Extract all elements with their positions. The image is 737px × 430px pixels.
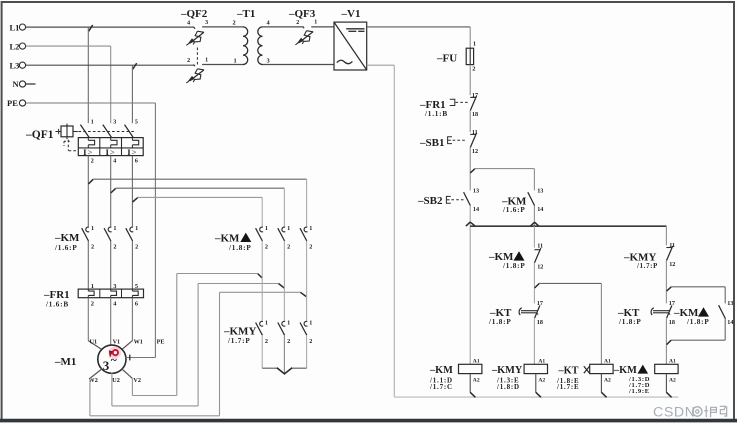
svg-text:–T1: –T1 bbox=[236, 8, 255, 20]
watermark char ma bbox=[720, 406, 727, 416]
wire column x306.6 bbox=[306, 241, 308, 321]
junction U2 to column2 bbox=[279, 284, 285, 289]
svg-text:–KT: –KT bbox=[558, 366, 579, 377]
svg-text:U2: U2 bbox=[112, 377, 120, 384]
junction KT coil branch bbox=[535, 283, 540, 288]
svg-text:2: 2 bbox=[309, 244, 312, 251]
wire T1-3 to V1 bbox=[263, 64, 335, 66]
svg-text:4: 4 bbox=[187, 20, 190, 26]
junction branch phase2 bbox=[111, 188, 116, 193]
svg-text:–KMY: –KMY bbox=[623, 252, 656, 264]
wire phase2 to KM-delta bbox=[116, 187, 285, 189]
svg-text:1: 1 bbox=[287, 225, 290, 232]
svg-text:2: 2 bbox=[265, 338, 268, 345]
svg-text:PE: PE bbox=[7, 98, 18, 108]
contactor KM main contact x110.7 pins 1-2 bbox=[108, 227, 111, 232]
watermark circled at bbox=[693, 407, 702, 416]
coil KM-delta pins A1-A2 bbox=[665, 363, 667, 365]
breaker QF3 pole pins 2-1 bbox=[303, 26, 305, 28]
wire FR1-6 to motor W1 bbox=[131, 298, 133, 341]
svg-text:1: 1 bbox=[91, 225, 94, 232]
wire KMY NC down bbox=[665, 261, 667, 304]
svg-text:L3: L3 bbox=[10, 60, 20, 70]
contactor KMY contact x284.4 pins 1-2 bbox=[282, 321, 285, 326]
svg-text:1: 1 bbox=[314, 20, 317, 26]
wire to fuse FU bbox=[469, 27, 471, 48]
svg-text:1: 1 bbox=[265, 320, 268, 327]
contactor KM-delta contact x284.4 pins 1-2 bbox=[282, 227, 285, 232]
svg-text:A2: A2 bbox=[538, 377, 545, 383]
svg-text:A1: A1 bbox=[604, 359, 611, 365]
svg-text:–QF2: –QF2 bbox=[180, 8, 208, 20]
svg-text:/1.8:P: /1.8:P bbox=[618, 318, 642, 326]
breaker QF1 pole 3 blade bbox=[103, 125, 112, 138]
svg-text:2: 2 bbox=[265, 244, 268, 251]
svg-text:/1.7:E: /1.7:E bbox=[556, 383, 580, 391]
svg-text:/1.6:B: /1.6:B bbox=[45, 301, 69, 309]
svg-text:1: 1 bbox=[287, 320, 290, 327]
wire SB2 down bbox=[469, 206, 471, 365]
breaker QF1 mechanical link bbox=[79, 131, 135, 133]
svg-text:2: 2 bbox=[91, 159, 94, 165]
svg-text:12: 12 bbox=[669, 261, 675, 268]
svg-text:A1: A1 bbox=[669, 359, 676, 365]
svg-text:/1.6:P: /1.6:P bbox=[502, 206, 526, 214]
svg-text:–KM: –KM bbox=[54, 232, 80, 244]
svg-text:A2: A2 bbox=[604, 377, 611, 383]
svg-text:/1.1:B: /1.1:B bbox=[424, 110, 448, 118]
wire QF3-1 to V1 bbox=[311, 26, 334, 28]
svg-text:3: 3 bbox=[113, 119, 116, 125]
svg-text:1: 1 bbox=[113, 225, 116, 232]
breaker QF1 magnetic trip pole 1 bbox=[87, 138, 89, 141]
svg-text:18: 18 bbox=[669, 319, 675, 326]
svg-text:–KM: –KM bbox=[214, 233, 240, 245]
wire QF1-6 down bbox=[131, 156, 133, 227]
wire N stub bbox=[26, 83, 36, 85]
svg-text:3: 3 bbox=[267, 57, 270, 64]
wire KM contact to FR1 x110.7 bbox=[110, 241, 112, 289]
svg-text:1: 1 bbox=[91, 119, 94, 125]
svg-text:–V1: –V1 bbox=[341, 8, 361, 20]
junction L3 branch bbox=[133, 63, 137, 69]
svg-text:1: 1 bbox=[205, 58, 208, 64]
svg-text:/1.8:D: /1.8:D bbox=[496, 383, 520, 391]
svg-text:–KM: –KM bbox=[613, 365, 637, 376]
svg-text:13: 13 bbox=[537, 188, 543, 195]
svg-text:12: 12 bbox=[537, 263, 543, 270]
junction KM aux to bus bbox=[530, 222, 534, 226]
svg-text:V2: V2 bbox=[133, 377, 141, 384]
contactor KMY contact x306.6 pins 1-2 bbox=[304, 321, 307, 326]
svg-text:2: 2 bbox=[233, 20, 236, 27]
wire PE drop bbox=[154, 103, 156, 358]
svg-text:12: 12 bbox=[472, 148, 478, 155]
svg-text:–FU: –FU bbox=[436, 53, 457, 65]
coil KM pins A1-A2 bbox=[469, 363, 471, 365]
svg-text:–KMY: –KMY bbox=[491, 365, 523, 376]
svg-text:/1.9:E: /1.9:E bbox=[628, 388, 650, 395]
svg-text:PE: PE bbox=[157, 338, 165, 345]
svg-text:/1.7:P: /1.7:P bbox=[636, 263, 658, 270]
wire parallel branch top bbox=[671, 286, 725, 288]
timer KT delayed contact symbol (right) bbox=[651, 308, 654, 315]
wire FR1 to SB1 bbox=[469, 111, 471, 133]
svg-text:3: 3 bbox=[205, 20, 208, 26]
svg-text:A1: A1 bbox=[538, 359, 545, 365]
contactor KMY contact x262.2 pins 1-2 bbox=[260, 321, 263, 326]
svg-text:–M1: –M1 bbox=[54, 356, 76, 368]
contactor KM-delta contact x262.2 pins 1-2 bbox=[260, 227, 263, 232]
wire KT contact to KMY coil bbox=[533, 318, 535, 364]
svg-text:18: 18 bbox=[537, 319, 543, 326]
thermal overload FR1 heater x110.7 bbox=[110, 289, 112, 291]
breaker QF1 trip unit box bbox=[78, 138, 143, 156]
svg-text:CSDN: CSDN bbox=[653, 404, 696, 420]
contactor KM main contact x132.4 pins 1-2 bbox=[130, 227, 133, 232]
svg-text:2: 2 bbox=[296, 20, 299, 26]
star point arrow bbox=[277, 368, 292, 374]
junction branch phase1 bbox=[88, 179, 93, 184]
wire SB1 to SB2 bbox=[469, 148, 471, 191]
svg-text:–QF3: –QF3 bbox=[288, 8, 316, 20]
cursor highlight red dot bbox=[109, 346, 121, 358]
coil KMY pins A1-A2 bbox=[535, 363, 537, 365]
breaker QF1 magnetic trip pole 3 bbox=[110, 138, 112, 141]
svg-text:–QF1: –QF1 bbox=[25, 129, 54, 141]
svg-text:V1: V1 bbox=[113, 338, 121, 345]
svg-text:A2: A2 bbox=[473, 377, 480, 383]
wire T1-4 to QF3 bbox=[263, 26, 303, 28]
junction L1 branch bbox=[89, 25, 93, 31]
svg-text:–SB2: –SB2 bbox=[417, 195, 443, 207]
svg-text:/1.8:P: /1.8:P bbox=[488, 318, 512, 326]
svg-text:–SB1: –SB1 bbox=[419, 137, 444, 149]
svg-text:–FR1: –FR1 bbox=[43, 289, 70, 301]
svg-text:13: 13 bbox=[473, 188, 479, 195]
rectifier V1 DC symbol bbox=[346, 28, 364, 30]
coil KT pins A1-A2 bbox=[600, 363, 602, 365]
wire L2 drop to QF1 pole 3 bbox=[110, 46, 112, 123]
junction parallel branch bottom bbox=[667, 340, 672, 344]
wire QF2-1 to T1 bbox=[202, 64, 243, 66]
svg-text:/1.7:C: /1.7:C bbox=[429, 383, 453, 391]
svg-text:5: 5 bbox=[135, 119, 138, 125]
wire V1 DC+ output bbox=[367, 26, 471, 28]
rectifier V1 box bbox=[334, 22, 367, 70]
wire column x284.4 bbox=[283, 241, 285, 321]
breaker QF2 pole B pins 2-1 bbox=[194, 65, 196, 67]
junction SB2 to bus bbox=[466, 222, 470, 226]
svg-text:2: 2 bbox=[472, 65, 475, 72]
svg-text:2: 2 bbox=[91, 244, 94, 251]
svg-text:–KMY: –KMY bbox=[223, 326, 256, 338]
control bus wire bbox=[470, 225, 666, 227]
breaker QF2 link bbox=[196, 48, 198, 67]
svg-text:1: 1 bbox=[473, 41, 476, 48]
thermal overload FR1 heater x132.4 bbox=[131, 289, 133, 291]
svg-text:A2: A2 bbox=[669, 377, 676, 383]
timer KT delayed contact symbol (mid) bbox=[519, 308, 522, 315]
svg-text:L2: L2 bbox=[10, 41, 20, 51]
wire parallel branch bottom bbox=[724, 319, 726, 341]
wire FR1-4 to motor V1 bbox=[110, 298, 112, 346]
junction W2 to column3 bbox=[300, 292, 306, 297]
svg-text:2: 2 bbox=[135, 244, 138, 251]
breaker QF1 trip linkage bbox=[67, 140, 69, 151]
junction parallel branch top bbox=[667, 287, 672, 291]
svg-text:L1: L1 bbox=[10, 22, 20, 32]
contactor KM-delta contact x306.6 pins 1-2 bbox=[304, 227, 307, 232]
wire bus to KM-delta NC bbox=[533, 226, 535, 247]
wire L2 horizontal bbox=[26, 45, 111, 47]
svg-text:/1.6:P: /1.6:P bbox=[54, 244, 78, 252]
motor M1 PE connection bbox=[125, 357, 155, 359]
wire holding branch bbox=[475, 168, 535, 170]
coil KT timer symbol bbox=[584, 366, 590, 373]
svg-text:2: 2 bbox=[287, 338, 290, 345]
wire KM contact to FR1 x132.4 bbox=[131, 241, 133, 289]
watermark char pai bbox=[704, 406, 716, 417]
thermal overload FR1 box bbox=[78, 289, 143, 298]
wire KM aux down to bus bbox=[533, 206, 535, 227]
wire W2 routing bbox=[90, 415, 220, 417]
wire U2 routing bbox=[112, 405, 198, 407]
pushbutton SB2 actuator bbox=[446, 196, 450, 203]
wire V1 DC- output / negative rail bbox=[367, 64, 395, 66]
svg-text:1: 1 bbox=[234, 57, 237, 64]
svg-text:2: 2 bbox=[113, 244, 116, 251]
motor M1 body bbox=[98, 345, 126, 373]
svg-text:N: N bbox=[13, 79, 20, 89]
svg-text:1: 1 bbox=[265, 225, 268, 232]
svg-text:14: 14 bbox=[727, 319, 733, 326]
wire QF1-4 down bbox=[110, 156, 112, 227]
thermal overload FR1 NC actuator bbox=[450, 99, 455, 105]
svg-text:/1.8:P: /1.8:P bbox=[502, 262, 526, 270]
wire V2 routing bbox=[132, 395, 176, 397]
junction holding branch bbox=[470, 169, 475, 173]
svg-text:/1.7:P: /1.7:P bbox=[227, 337, 251, 345]
wire column x262.2 bbox=[261, 241, 263, 321]
svg-text:/1.8:P: /1.8:P bbox=[686, 318, 710, 326]
star point wires bbox=[261, 335, 263, 368]
contactor KM main contact x88.3 pins 1-2 bbox=[86, 227, 89, 232]
svg-text:13: 13 bbox=[727, 300, 733, 307]
wire KT right down bbox=[665, 318, 667, 364]
svg-text:/1.8:P: /1.8:P bbox=[228, 244, 252, 252]
wire QF1-2 down bbox=[87, 156, 89, 227]
svg-text:3: 3 bbox=[103, 358, 110, 373]
svg-text:W1: W1 bbox=[134, 338, 143, 345]
breaker QF1 pole 1 blade bbox=[80, 125, 89, 138]
svg-text:2: 2 bbox=[309, 338, 312, 345]
svg-text:1: 1 bbox=[135, 225, 138, 232]
wire branch to KT coil bbox=[539, 282, 601, 284]
svg-text:A1: A1 bbox=[473, 359, 480, 365]
breaker QF2 pole A pins 4-3 bbox=[194, 27, 196, 29]
junction V2 to column1 bbox=[258, 274, 263, 279]
wire FR1-2 to motor U1 bbox=[87, 298, 89, 341]
svg-text:2: 2 bbox=[187, 58, 190, 64]
svg-text:6: 6 bbox=[135, 159, 138, 165]
junction branch phase3 bbox=[133, 198, 138, 202]
wire L1 horizontal bbox=[26, 26, 194, 28]
wire L3 drop to QF1 pole 5 bbox=[131, 65, 133, 123]
svg-text:1: 1 bbox=[309, 320, 312, 327]
svg-text:14: 14 bbox=[537, 206, 543, 213]
breaker QF1 operator bbox=[56, 131, 61, 133]
breaker QF1 pole 5 blade bbox=[125, 125, 134, 138]
thermal overload FR1 heater x88.3 bbox=[87, 289, 89, 291]
pushbutton SB1 actuator bbox=[448, 137, 452, 144]
svg-text:2: 2 bbox=[287, 244, 290, 251]
wire KM-delta NC down bbox=[533, 263, 535, 303]
svg-text:–KM: –KM bbox=[429, 365, 453, 376]
wire phase3 to KM-delta bbox=[138, 196, 263, 198]
wire L3 horizontal bbox=[26, 64, 194, 66]
wire phase1 to KM-delta bbox=[93, 178, 306, 180]
rectifier V1 AC symbol bbox=[337, 60, 353, 63]
svg-text:2: 2 bbox=[91, 300, 94, 307]
svg-text:1: 1 bbox=[309, 225, 312, 232]
wire L1 drop to QF1 pole 1 bbox=[87, 27, 89, 123]
wire KM contact to FR1 x88.3 bbox=[87, 241, 89, 289]
svg-text:4: 4 bbox=[113, 159, 116, 165]
breaker QF1 magnetic trip pole 5 bbox=[131, 138, 133, 141]
wire QF2-3 to T1 bbox=[202, 26, 243, 28]
svg-text:18: 18 bbox=[472, 111, 478, 118]
wire FU to FR1 bbox=[469, 65, 471, 96]
svg-text:14: 14 bbox=[473, 206, 479, 213]
svg-text:U1: U1 bbox=[90, 338, 98, 345]
wire PE horizontal bbox=[26, 102, 156, 104]
fuse FU body bbox=[466, 48, 473, 64]
